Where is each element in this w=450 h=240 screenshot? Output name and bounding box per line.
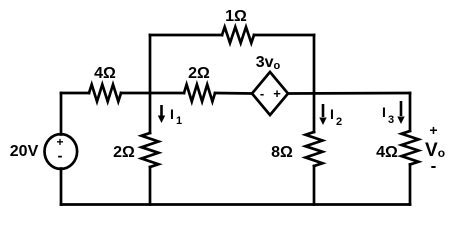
svg-text:I: I (330, 106, 334, 122)
dependent source 3vo diamond (252, 72, 288, 115)
wire middle branch lower (x=150) (149, 167, 152, 205)
svg-text:1: 1 (176, 115, 182, 127)
voltage source 20V circle (45, 134, 78, 169)
svg-text:2Ω: 2Ω (188, 65, 210, 82)
svg-text:3: 3 (388, 114, 394, 126)
svg-text:I: I (170, 106, 174, 122)
wire left branch upper (60, 93, 63, 135)
wire 2ohm to dependent source (215, 92, 252, 95)
current arrow I1 (158, 105, 165, 123)
resistor 4ohm vertical (402, 131, 419, 165)
wire 4ohm to 2ohm horizontal (121, 92, 184, 95)
wire top left horizontal (150, 34, 222, 37)
svg-text:+: + (273, 86, 281, 101)
resistor 2ohm vertical (142, 133, 159, 167)
svg-text:-: - (58, 148, 63, 165)
wire right branch lower (409, 165, 412, 205)
wire main horizontal: left node to 4ohm (61, 92, 89, 95)
svg-text:I: I (382, 104, 386, 120)
wire top right horizontal (254, 34, 314, 37)
svg-text:3vo: 3vo (256, 54, 281, 72)
resistor 2ohm horizontal (184, 85, 215, 102)
svg-text:4Ω: 4Ω (376, 144, 398, 161)
wire right branch upper (x=410) (409, 93, 412, 131)
svg-text:-: - (431, 157, 437, 176)
resistor 4ohm horizontal (89, 85, 121, 102)
wire 8ohm branch lower (313, 166, 316, 205)
wire bottom (61, 203, 410, 206)
svg-text:1Ω: 1Ω (225, 8, 247, 25)
wire top-left vertical (node to 1ohm loop) (149, 35, 152, 93)
svg-text:+: + (429, 122, 437, 138)
current arrow I3 (397, 101, 404, 124)
wire top-right vertical (313, 35, 316, 93)
current arrow I2 (319, 104, 326, 125)
resistor 8ohm vertical (306, 132, 323, 166)
resistor 1ohm (222, 27, 254, 43)
wire left branch lower (60, 169, 63, 205)
svg-text:4Ω: 4Ω (94, 65, 116, 82)
svg-text:-: - (260, 86, 264, 101)
svg-text:8Ω: 8Ω (271, 144, 293, 161)
wire 8ohm branch upper (x=313.5) (313, 93, 316, 132)
svg-text:20V: 20V (10, 143, 39, 160)
svg-text:2Ω: 2Ω (113, 144, 135, 161)
svg-text:2: 2 (336, 116, 342, 128)
wire dependent source to right node (288, 92, 410, 95)
wire middle branch upper (x=150) (149, 93, 152, 133)
